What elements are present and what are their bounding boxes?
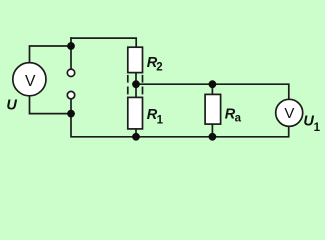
potentiometer body dashed left (127, 76, 129, 98)
voltmeter U1 right (276, 99, 303, 126)
voltmeter U left (13, 63, 46, 96)
terminal 2 (67, 91, 74, 98)
wire terminal 2 to node B (70, 99, 72, 113)
potentiometer body dashed right (142, 76, 144, 98)
svg-text:V: V (25, 73, 36, 90)
terminal 1 (67, 69, 74, 76)
svg-text:U: U (6, 97, 17, 113)
wire bottom rail (71, 114, 289, 137)
svg-text:2: 2 (156, 62, 162, 74)
wire Ra bottom stub (211, 124, 213, 137)
wire voltmeter top branch (30, 46, 72, 62)
wire Ra top stub (211, 84, 213, 94)
svg-text:1: 1 (314, 122, 321, 134)
svg-text:V: V (284, 105, 294, 122)
junction R1 bottom (132, 133, 140, 141)
wire R1 bottom stub (135, 129, 137, 137)
wire top rail to R2 (71, 38, 136, 47)
wire riser from node A (70, 38, 72, 46)
svg-text:1: 1 (157, 115, 164, 127)
junction node A (67, 42, 75, 50)
junction node B (67, 110, 75, 118)
junction Ra top (209, 80, 217, 88)
wire divider center R2 to R1 (135, 73, 137, 98)
wire tap to voltmeter U1 (136, 84, 289, 99)
resistor R2 (128, 47, 143, 72)
resistor R1 (128, 97, 143, 128)
resistor Ra (205, 94, 221, 124)
wire voltmeter bottom branch (30, 96, 72, 113)
wire node A to terminal 1 (70, 46, 72, 69)
junction Ra bottom (209, 133, 217, 141)
svg-text:a: a (235, 113, 242, 125)
junction tap node (132, 80, 140, 88)
